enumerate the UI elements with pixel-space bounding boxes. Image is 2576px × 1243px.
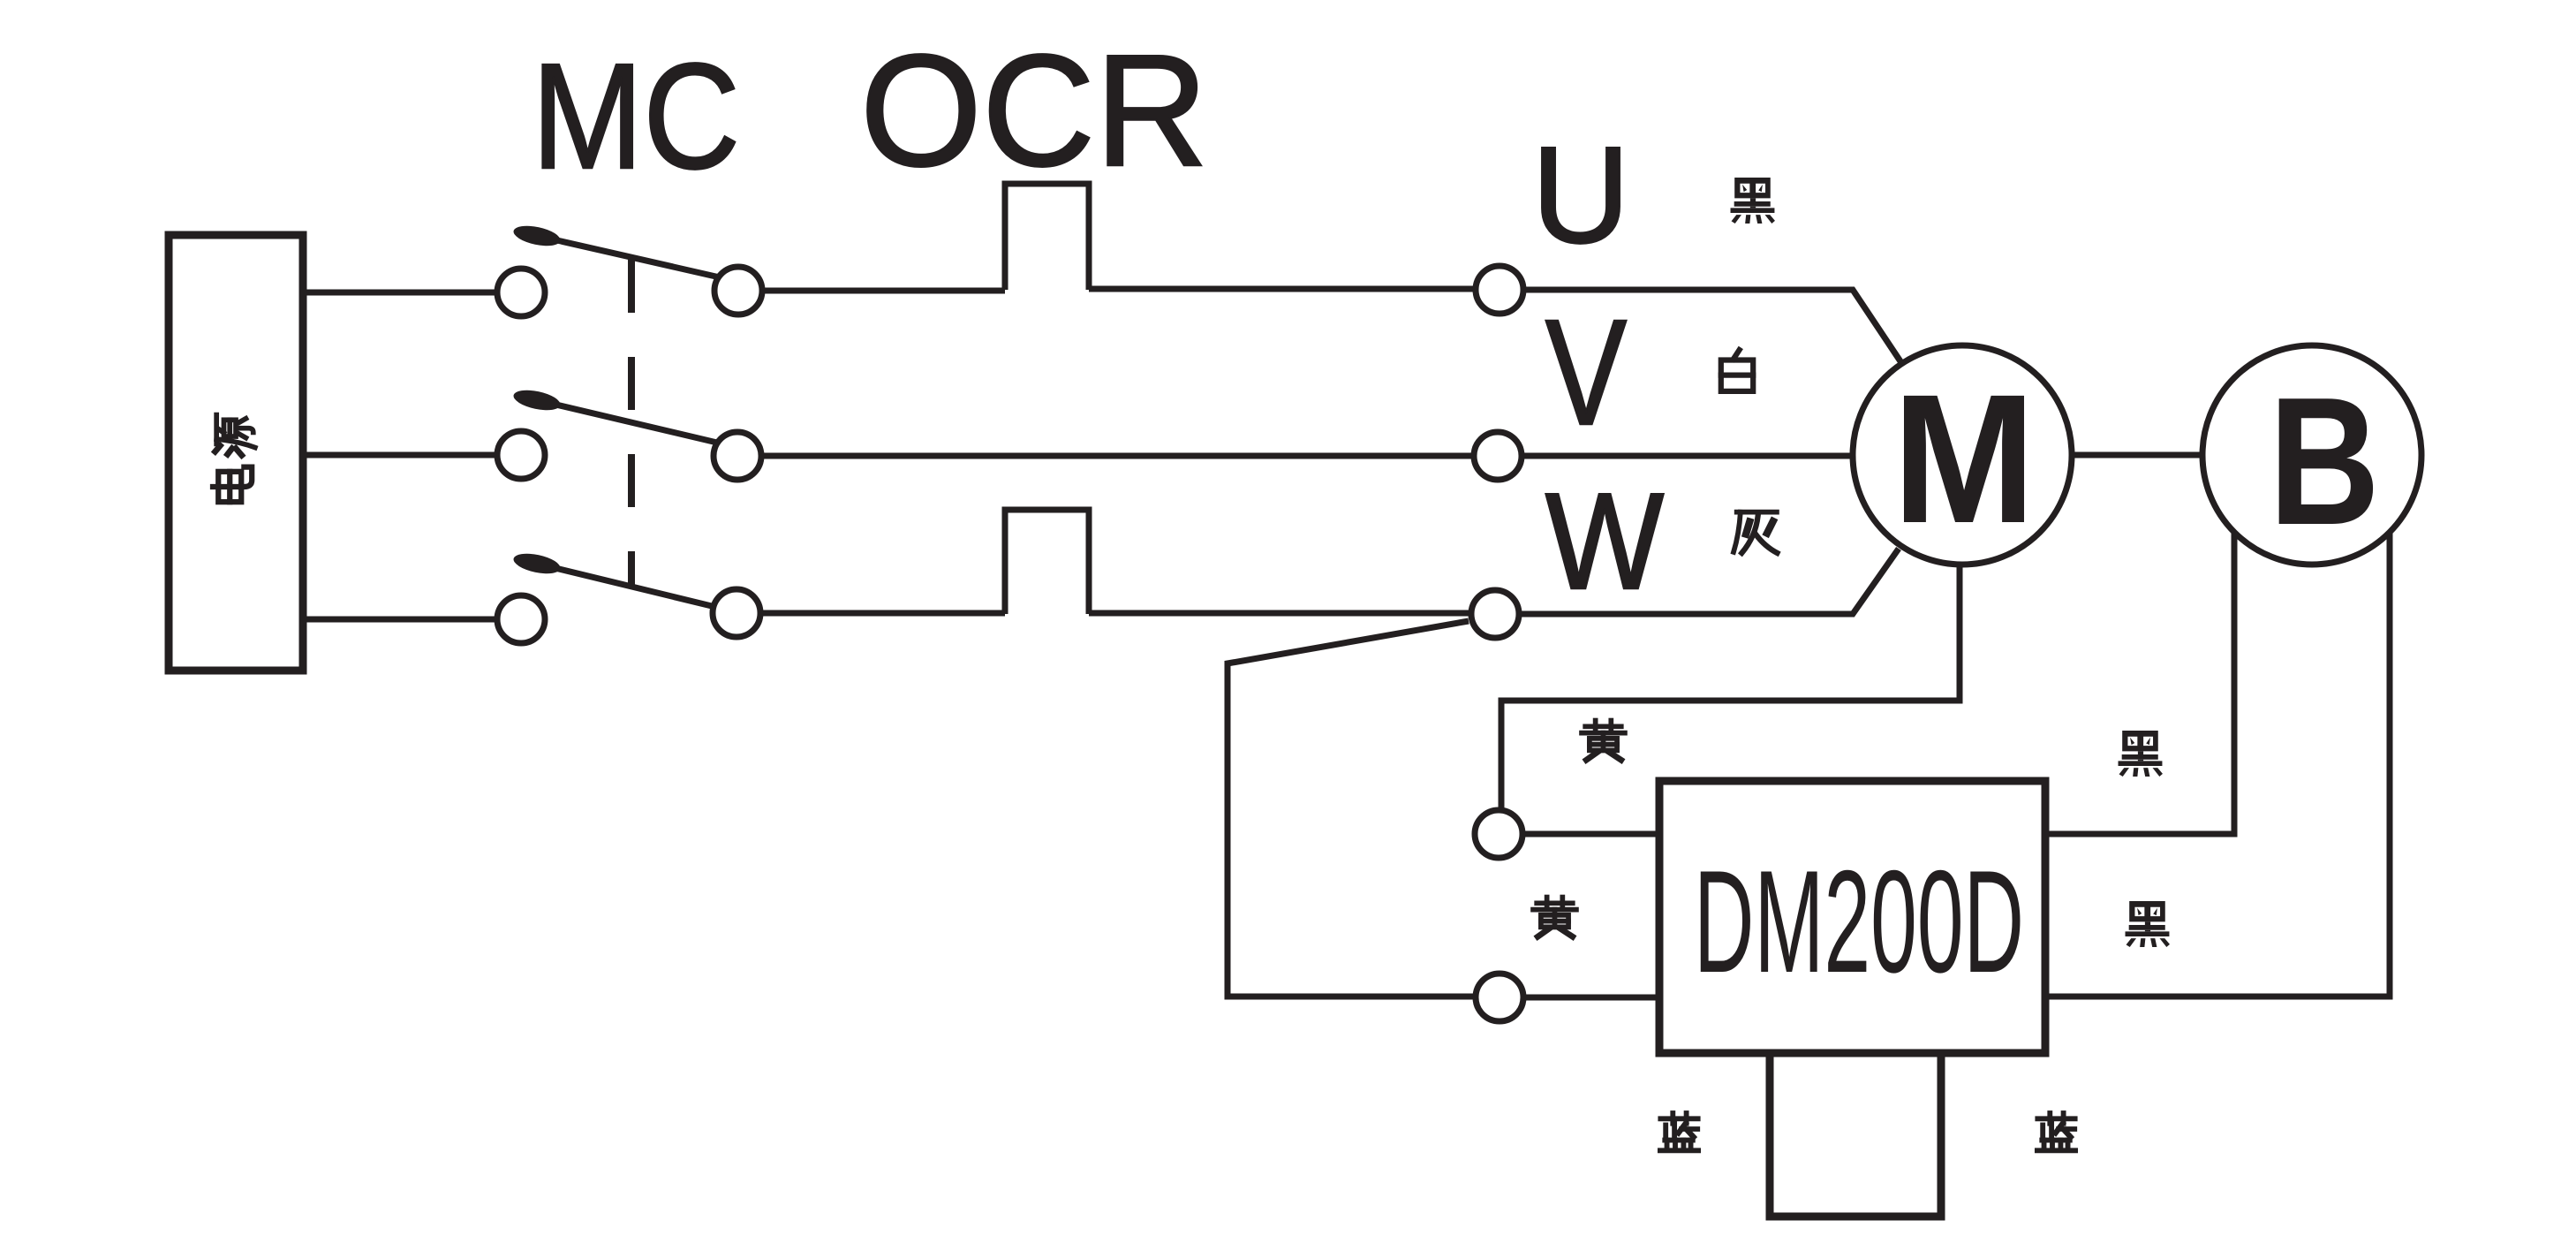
W terminal circle <box>1471 590 1519 638</box>
wire W to motor <box>1522 549 1899 614</box>
OCR heater element 1 <box>1005 184 1089 290</box>
MC switch arm 1 <box>512 223 720 277</box>
wire source to MC pole1 <box>303 290 497 296</box>
wire source to MC pole3 <box>303 617 497 623</box>
MC contact R1 <box>714 267 762 315</box>
MC switch arm 3 <box>512 550 715 607</box>
wire MC R1 to OCR1 <box>765 288 1005 294</box>
wire upper yellow terminal to DM200D <box>1525 831 1659 838</box>
灰 label W wire <box>1734 512 1777 553</box>
黑 label U wire <box>1731 178 1775 224</box>
svg-text:M: M <box>1892 357 2036 562</box>
wire B to DM200D upper (black) <box>2045 533 2234 834</box>
svg-text:MC: MC <box>532 33 740 201</box>
upper yellow terminal circle <box>1475 810 1522 858</box>
wire OCR1 to U terminal <box>1089 286 1473 292</box>
白 label V wire <box>1721 350 1753 391</box>
wire lower yellow terminal to DM200D <box>1526 995 1659 1001</box>
OCR heater element 2 <box>1005 510 1089 614</box>
MC switch arm 2 <box>512 387 717 443</box>
黑 label upper right <box>2119 731 2163 777</box>
wire W terminal down-left loop to lower yellow terminal <box>1228 621 1473 997</box>
wire M bottom to upper yellow terminal <box>1501 565 1960 808</box>
wire MC R2 to V terminal <box>764 453 1471 459</box>
蓝 label right <box>2037 1113 2075 1150</box>
wire MC R3 to OCR2 <box>763 610 1005 617</box>
黄 label lower <box>1533 898 1576 937</box>
DM200D controller box <box>1659 781 2045 1053</box>
DM200D bottom tab <box>1770 1053 1941 1216</box>
motor M circle <box>1853 345 2072 565</box>
wire source to MC pole2 <box>303 452 497 459</box>
V terminal circle <box>1474 432 1522 480</box>
power source box 电源 <box>169 235 303 671</box>
MC gang dashed link <box>628 260 635 586</box>
svg-text:DM200D: DM200D <box>1694 840 2024 1003</box>
U terminal circle <box>1476 266 1523 314</box>
wire M to B <box>2072 452 2202 459</box>
svg-text:V: V <box>1545 289 1627 457</box>
MC contact R2 <box>714 432 761 480</box>
MC contact R3 <box>713 589 760 637</box>
MC contact L2 <box>497 431 545 479</box>
svg-text:B: B <box>2269 360 2380 563</box>
svg-text:OCR: OCR <box>860 22 1208 200</box>
wire OCR2 to W terminal <box>1089 610 1469 617</box>
wire B to DM200D lower (black) <box>2045 533 2390 997</box>
电源 label (rotated) <box>213 415 255 503</box>
svg-text:U: U <box>1532 118 1630 271</box>
黑 label lower right <box>2126 901 2170 947</box>
lower yellow terminal circle <box>1476 974 1523 1021</box>
MC contact L1 <box>497 269 545 316</box>
wire V to motor <box>1524 453 1855 459</box>
蓝 label left <box>1660 1113 1698 1150</box>
brake B circle <box>2202 345 2421 565</box>
svg-text:W: W <box>1545 465 1664 618</box>
MC contact L3 <box>497 595 545 643</box>
wire U to motor <box>1526 290 1900 361</box>
黄 label upper <box>1582 721 1625 761</box>
